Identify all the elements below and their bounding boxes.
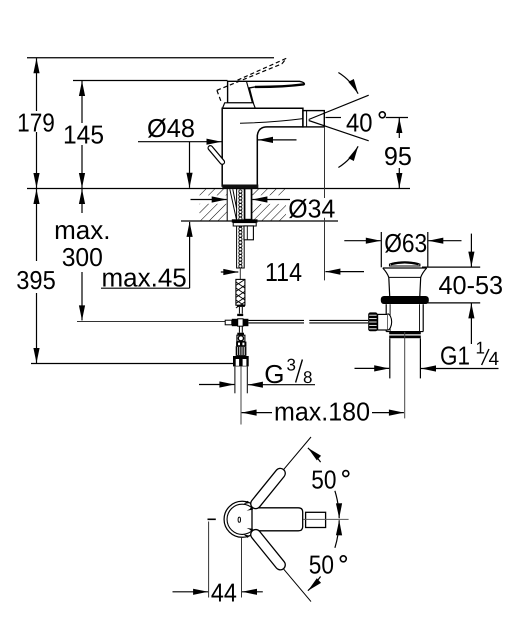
extension line from spout tip upper <box>324 127 326 198</box>
tick Ø63 right <box>427 232 429 267</box>
leader Ø48 arrow to faucet base <box>138 141 222 143</box>
mounting washer lower <box>233 223 256 226</box>
rod port on valve <box>378 314 388 330</box>
svg-text:114: 114 <box>265 257 302 287</box>
svg-text:395: 395 <box>16 265 56 295</box>
pop-up rod thin left segment <box>77 321 225 323</box>
valve cap <box>390 262 420 266</box>
valve bottom flange <box>389 332 421 335</box>
knurled collar <box>236 342 246 347</box>
dimension 179 line <box>36 58 38 188</box>
hose end fitting <box>237 305 245 307</box>
knurled nut <box>236 346 247 356</box>
svg-text:300: 300 <box>62 242 103 272</box>
svg-text:Ø34: Ø34 <box>288 193 335 223</box>
ball joint <box>237 335 245 341</box>
svg-text:Ø63: Ø63 <box>384 228 427 258</box>
svg-text:145: 145 <box>63 120 104 150</box>
junction wedge capsule upper <box>243 501 249 505</box>
arc 50 upper segment b <box>335 491 339 519</box>
deck hatched block left of hole <box>200 189 228 222</box>
wire lower reference line 395 <box>31 363 233 365</box>
svg-text:50: 50 <box>309 550 334 580</box>
svg-text:40-53: 40-53 <box>439 270 504 300</box>
handle angle line lower <box>250 529 311 602</box>
spray fan lower line <box>309 121 369 141</box>
lever handle raised position (dashed) <box>217 58 287 101</box>
arc 50 upper segment a <box>308 448 321 462</box>
dimension Ø48 second arrow (left-pointing at column right edge) <box>258 139 297 141</box>
svg-text:3: 3 <box>287 356 296 375</box>
svg-text:G1: G1 <box>440 341 470 371</box>
junction wedge lower <box>247 528 253 531</box>
pop-up rod guide box <box>244 226 253 240</box>
centreline to 40 label <box>326 117 342 119</box>
arc arrow lower 40 <box>338 146 358 167</box>
spout bar top view <box>252 508 303 531</box>
tailpipe <box>389 338 391 378</box>
dimension 395 line <box>36 189 38 363</box>
shank thread texture <box>239 190 242 268</box>
spout internal contour <box>240 119 303 124</box>
arc arrow upper 40 <box>338 73 358 94</box>
dimension max.300 line <box>81 189 83 320</box>
base flange gasket <box>222 185 258 189</box>
wire top reference line (handle max height) <box>27 57 274 59</box>
swivel nut <box>233 356 249 366</box>
svg-text:1: 1 <box>476 339 485 358</box>
svg-text:max.: max. <box>54 215 110 245</box>
tick Ø63 left <box>380 232 382 267</box>
wedge anchor lines in deck hole <box>230 189 237 219</box>
dimension 44 extension lines <box>208 522 210 598</box>
leader max.45 vertical arrow to deck underside <box>189 222 191 288</box>
aerator square top view <box>306 512 326 527</box>
cartridge cap <box>223 103 256 109</box>
svg-text:44: 44 <box>211 578 237 608</box>
dimension G1 1/4 <box>355 367 390 369</box>
wire deck top line <box>27 188 410 190</box>
junction wedge capsule lower <box>243 534 249 538</box>
centreline right of aerator <box>303 518 348 520</box>
pop-up rod middle segment <box>248 319 304 321</box>
pull rod stub left <box>208 518 216 520</box>
rod knob (knurled) <box>368 312 377 331</box>
cross fitting <box>225 320 232 325</box>
arc 50 lower segment b <box>335 520 339 548</box>
valve rubber seal (black band) <box>381 296 429 304</box>
threaded shank tube <box>237 189 245 268</box>
svg-text:Ø48: Ø48 <box>147 113 195 143</box>
svg-text:95: 95 <box>384 141 412 171</box>
cross fitting lower neck <box>238 326 240 333</box>
tick line right of 40 <box>386 117 408 119</box>
leader max.45 horizontal line <box>101 287 190 289</box>
centre screw glyph <box>238 517 240 522</box>
pop-up rod tube through deck <box>245 189 251 220</box>
body ring outer <box>224 501 255 537</box>
spray fan upper line <box>309 95 369 119</box>
svg-text:179: 179 <box>17 107 55 137</box>
mounting nut upper <box>232 219 258 222</box>
deck hatched block right of hole <box>252 189 286 222</box>
handle capsule lower <box>249 528 288 572</box>
pop-up pull rod knob <box>207 145 225 166</box>
valve lower body <box>385 304 387 331</box>
svg-text:50: 50 <box>311 464 336 494</box>
handle angle line upper <box>250 437 311 510</box>
svg-text:4: 4 <box>489 349 500 370</box>
svg-text:max.180: max.180 <box>274 397 370 427</box>
svg-text:max.45: max.45 <box>102 263 187 293</box>
deck hole edge lines <box>226 189 228 222</box>
braided hose section <box>236 279 245 308</box>
wire deck bottom line <box>181 220 338 222</box>
faucet body outline <box>222 108 303 187</box>
dimension Ø34 arrows <box>191 199 227 201</box>
faucet centreline extension <box>240 367 242 425</box>
hose gap thin line <box>239 268 241 279</box>
supply tube <box>234 367 236 394</box>
aerator <box>303 111 324 127</box>
dimension max.180 <box>242 412 272 414</box>
dimension 114 <box>221 271 239 273</box>
svg-text:40: 40 <box>346 108 373 138</box>
leader Ø48 vertical arrow to deck <box>189 142 191 188</box>
dimension 44 arrows <box>173 591 209 593</box>
lever handle body <box>228 81 305 103</box>
dimension Ø63 <box>344 240 381 242</box>
valve skirt <box>383 267 427 269</box>
valve centreline extension <box>404 332 406 418</box>
arc 50 lower segment a <box>308 577 321 591</box>
dimension G3/8 arrows <box>199 384 234 386</box>
dimension 40-53 <box>422 266 480 268</box>
white notch for Ø34 arrow tail <box>252 195 290 204</box>
lever blade dark underside <box>255 84 304 87</box>
dimension 95 <box>398 118 400 188</box>
lever front crease <box>247 82 253 103</box>
handle capsule upper <box>249 466 288 510</box>
dimension 145 line <box>81 81 83 188</box>
wire lever top reference line <box>73 80 228 82</box>
pop-up rod right segment <box>309 319 368 321</box>
body ring inner <box>227 504 253 534</box>
junction wedge upper <box>247 508 253 511</box>
extension line from spout tip lower <box>324 218 326 281</box>
